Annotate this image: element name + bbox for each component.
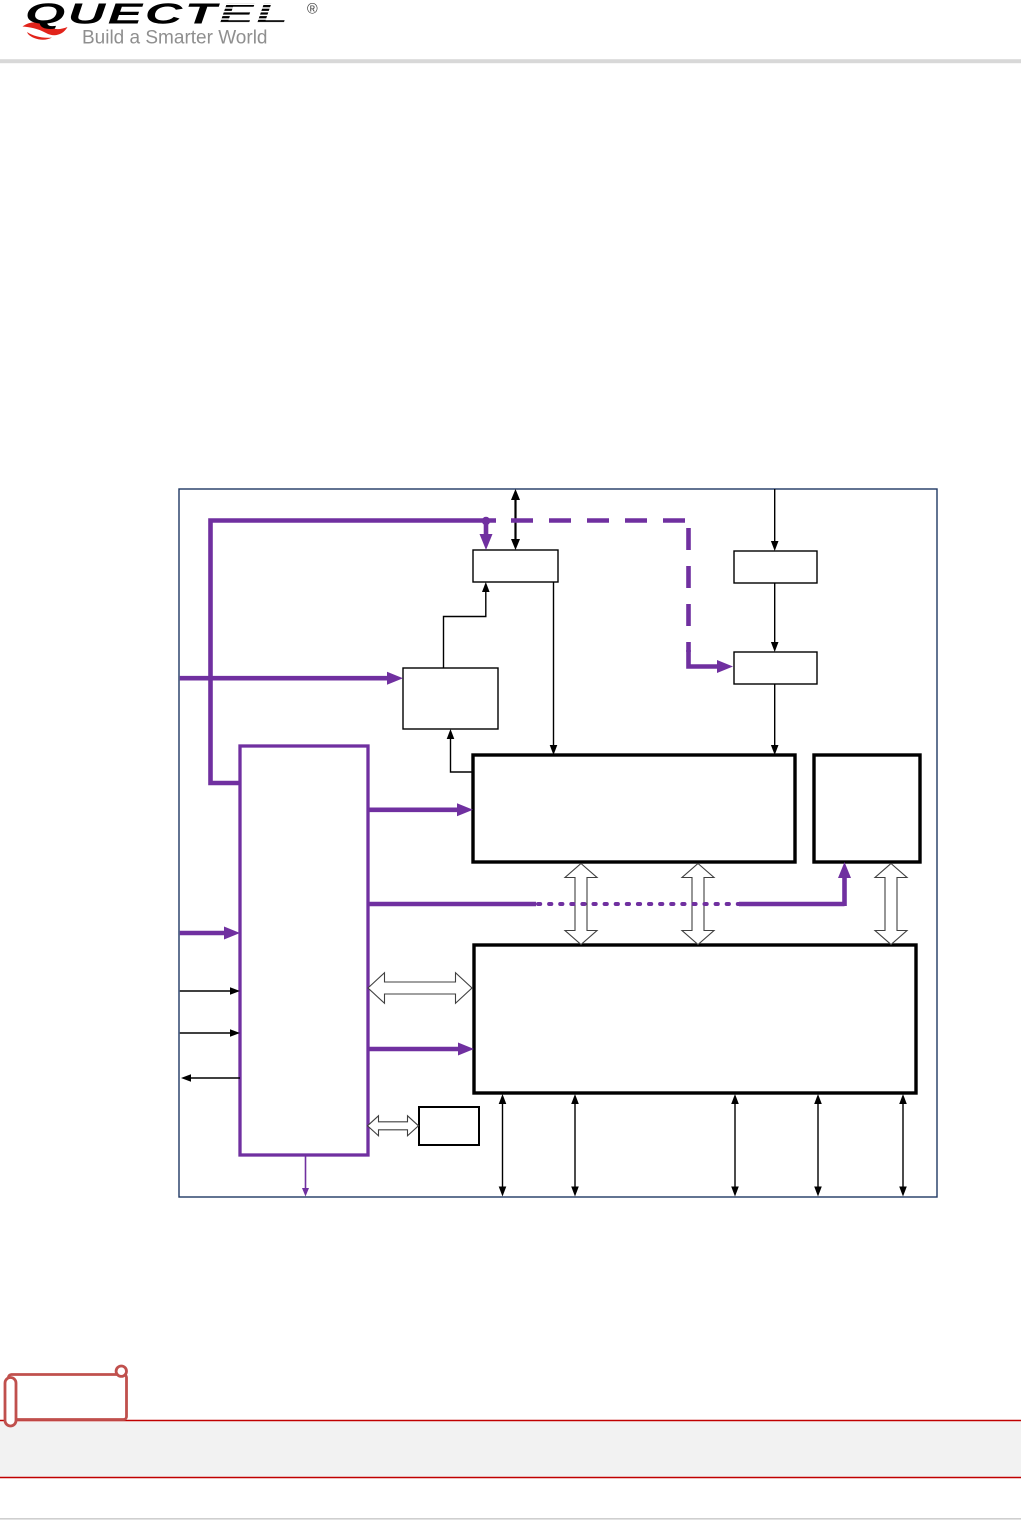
svg-text:®: ® (307, 2, 318, 18)
svg-text:QUECTEL: QUECTEL (25, 0, 290, 30)
svg-text:Build a Smarter World: Build a Smarter World (82, 28, 268, 49)
